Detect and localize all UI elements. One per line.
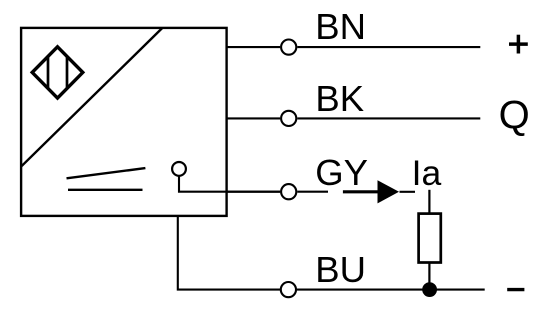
wire switch circle to GY exit <box>179 176 280 192</box>
wire box bottom drop to BU <box>178 216 280 290</box>
plus label <box>509 35 528 54</box>
svg-text:BN: BN <box>315 6 366 47</box>
current arrow Ia shaft <box>343 190 379 193</box>
switch blade <box>67 168 146 178</box>
terminal circle BN <box>281 40 296 55</box>
wire BN terminal to plus <box>297 46 480 48</box>
junction dot <box>422 282 437 297</box>
sensor body box <box>21 28 227 216</box>
wire resistor to junction <box>428 263 430 290</box>
svg-text:GY: GY <box>315 152 368 193</box>
wire BK terminal to Q <box>297 117 480 119</box>
wire BK box to terminal <box>227 117 281 119</box>
svg-text:BK: BK <box>315 78 364 119</box>
terminal circle GY <box>281 184 296 199</box>
sensor box diagonal divider <box>21 28 162 167</box>
current arrow head <box>378 180 400 203</box>
switch output circle <box>172 162 186 176</box>
current arrow tail line <box>400 191 416 193</box>
load resistor <box>419 214 441 263</box>
diamond left chord <box>47 57 50 89</box>
proximity sensor diamond symbol <box>32 47 83 98</box>
svg-text:Ia: Ia <box>412 153 442 193</box>
diamond right chord <box>66 57 69 89</box>
svg-text:Q: Q <box>499 93 530 137</box>
terminal circle BU <box>281 282 296 297</box>
wire Ia to load resistor <box>428 190 430 214</box>
terminal circle BK <box>281 111 296 126</box>
svg-text:BU: BU <box>315 249 366 290</box>
wire GY box to terminal <box>227 191 281 193</box>
switch contact line <box>68 189 143 191</box>
minus label <box>507 288 524 291</box>
wire GY terminal stub <box>297 191 328 193</box>
wire BN box to terminal <box>227 46 281 48</box>
wire BU terminal to minus <box>297 289 485 291</box>
